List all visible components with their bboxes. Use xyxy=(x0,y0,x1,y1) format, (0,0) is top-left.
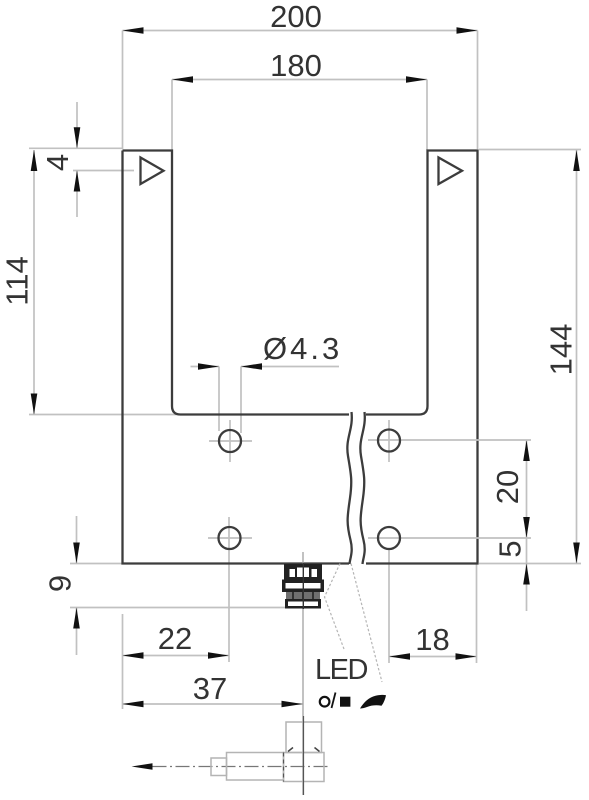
optical axis triangle right xyxy=(439,158,463,185)
LED state symbol circle xyxy=(320,697,330,707)
dimension 22 line xyxy=(123,517,230,709)
LED state symbol filled dot xyxy=(340,697,350,707)
break wavy line right xyxy=(360,412,364,564)
dimension 18 line xyxy=(389,550,477,663)
hole lower-right xyxy=(378,527,400,549)
svg-text:180: 180 xyxy=(270,48,322,83)
optical axis triangle left xyxy=(141,158,164,185)
emission direction arrow xyxy=(132,763,153,769)
svg-text:9: 9 xyxy=(43,575,78,592)
dimension 180 line xyxy=(172,76,427,150)
break wavy line left xyxy=(347,412,351,564)
dimension 4 line xyxy=(29,102,134,217)
LED state symbol slash xyxy=(332,693,336,709)
M8 connector stub on body xyxy=(282,563,324,609)
LED leader line xyxy=(325,564,345,650)
svg-text:Ø4.3: Ø4.3 xyxy=(263,331,342,366)
svg-text:4: 4 xyxy=(40,154,75,171)
body outline xyxy=(123,151,478,564)
teach arrow leader line xyxy=(351,564,382,683)
connector centerline vertical xyxy=(302,552,304,795)
svg-text:37: 37 xyxy=(193,671,227,706)
svg-text:18: 18 xyxy=(415,622,449,657)
bottom connector side view xyxy=(211,722,324,782)
hole upper-left xyxy=(219,430,241,452)
svg-text:144: 144 xyxy=(544,324,579,376)
svg-text:5: 5 xyxy=(493,540,528,557)
dimension 200 line xyxy=(123,27,478,149)
hole upper-right crosshair xyxy=(368,420,531,462)
hole lower-left xyxy=(219,527,241,549)
hole upper-left crosshair xyxy=(209,420,252,462)
hole lower-left crosshair xyxy=(208,537,252,539)
svg-text:114: 114 xyxy=(0,256,35,305)
dimension 37 line xyxy=(123,701,303,708)
bottom connector dashed edge xyxy=(283,753,285,782)
bottom connector chamfer ticks xyxy=(288,748,293,752)
svg-text:22: 22 xyxy=(158,621,192,656)
svg-text:20: 20 xyxy=(490,470,525,504)
dimension 20 line xyxy=(523,440,530,611)
hole lower-right crosshair xyxy=(368,537,531,539)
svg-text:LED: LED xyxy=(315,654,367,686)
optical axis dash-dot line xyxy=(153,766,332,768)
dimension 144 line xyxy=(479,150,581,564)
teach curved arrow symbol xyxy=(360,695,386,709)
dimension 114 line xyxy=(29,150,178,415)
dimension 9 line xyxy=(70,516,285,655)
bottom connector vertical centerline xyxy=(303,716,305,795)
hole upper-right xyxy=(378,430,400,452)
svg-text:200: 200 xyxy=(270,0,322,34)
dimension diameter 4.3 line xyxy=(191,363,340,433)
